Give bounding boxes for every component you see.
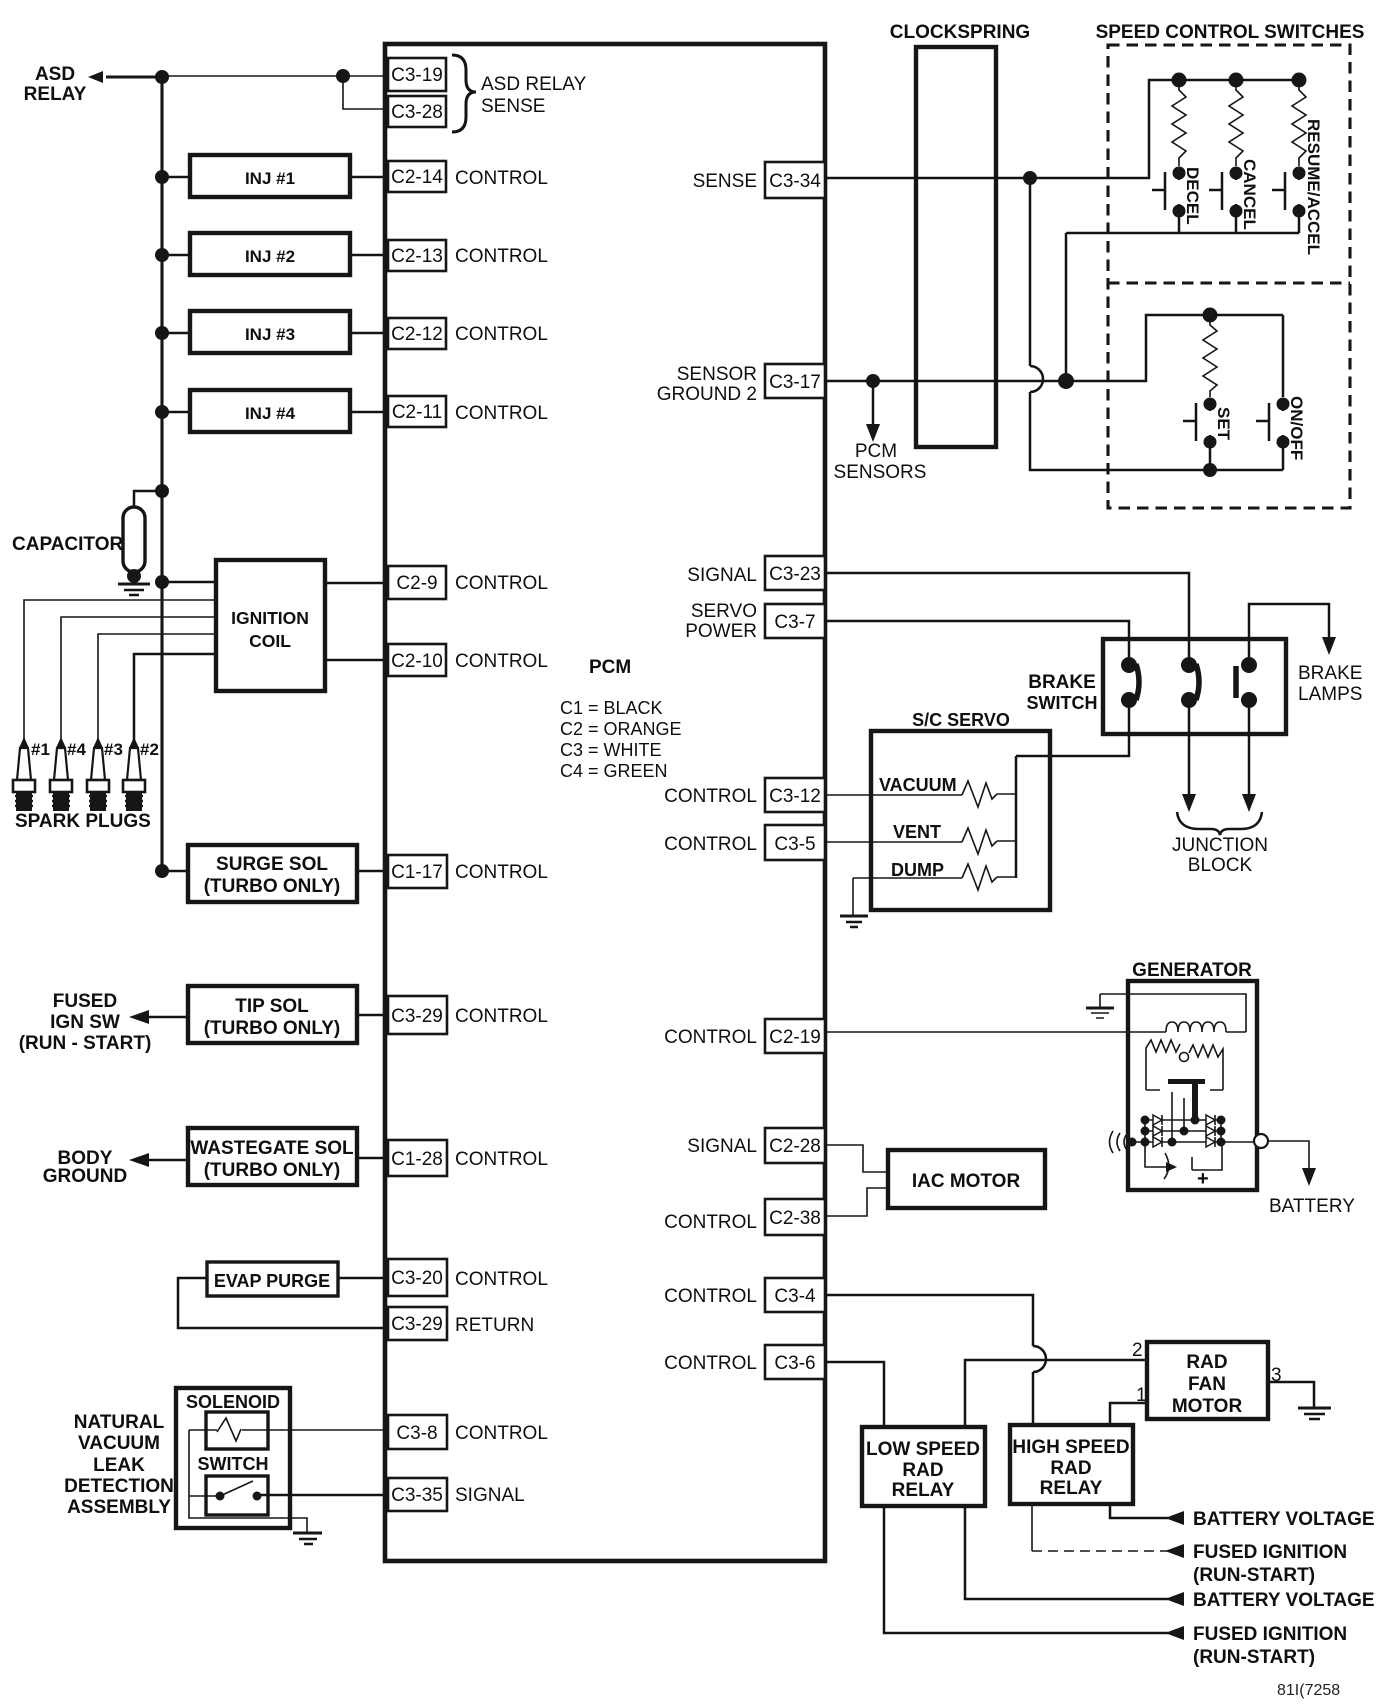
svg-text:C2-11: C2-11: [392, 402, 442, 423]
svg-text:CONTROL: CONTROL: [664, 1353, 757, 1374]
svg-text:C3-34: C3-34: [769, 171, 821, 192]
svg-text:(TURBO ONLY): (TURBO ONLY): [204, 1160, 341, 1181]
svg-text:RESUME/ACCEL: RESUME/ACCEL: [1304, 119, 1323, 255]
svg-text:S/C SERVO: S/C SERVO: [912, 710, 1010, 730]
svg-text:VACUUM: VACUUM: [78, 1433, 160, 1454]
svg-text:CONTROL: CONTROL: [455, 862, 548, 883]
svg-text:ASD: ASD: [35, 64, 75, 85]
svg-text:3: 3: [1271, 1365, 1282, 1386]
svg-text:CONTROL: CONTROL: [455, 1006, 548, 1027]
svg-text:#1: #1: [31, 740, 50, 759]
svg-text:GENERATOR: GENERATOR: [1132, 960, 1252, 981]
svg-text:C2-10: C2-10: [391, 651, 443, 672]
svg-text:SIGNAL: SIGNAL: [455, 1485, 525, 1506]
svg-text:C4 = GREEN: C4 = GREEN: [560, 761, 668, 781]
svg-text:CONTROL: CONTROL: [455, 573, 548, 594]
svg-text:BATTERY VOLTAGE: BATTERY VOLTAGE: [1193, 1590, 1375, 1611]
svg-text:SENSOR: SENSOR: [677, 364, 757, 385]
svg-text:BRAKE: BRAKE: [1028, 672, 1096, 693]
svg-text:C1-17: C1-17: [391, 862, 443, 883]
svg-text:ASD RELAY: ASD RELAY: [481, 74, 587, 95]
svg-text:C2 = ORANGE: C2 = ORANGE: [560, 719, 682, 739]
svg-text:C2-9: C2-9: [396, 573, 437, 594]
svg-text:CONTROL: CONTROL: [455, 168, 548, 189]
svg-text:LOW SPEED: LOW SPEED: [866, 1439, 980, 1460]
svg-text:CONTROL: CONTROL: [664, 834, 757, 855]
svg-text:CONTROL: CONTROL: [455, 1149, 548, 1170]
svg-text:C3-7: C3-7: [774, 612, 815, 633]
svg-text:#2: #2: [140, 740, 159, 759]
svg-text:CONTROL: CONTROL: [455, 651, 548, 672]
svg-text:(TURBO ONLY): (TURBO ONLY): [204, 876, 341, 897]
svg-text:VACUUM: VACUUM: [879, 775, 957, 795]
svg-text:PCM: PCM: [855, 441, 897, 462]
svg-text:DETECTION: DETECTION: [64, 1476, 174, 1497]
svg-text:INJ #3: INJ #3: [245, 325, 295, 344]
svg-text:C2-28: C2-28: [769, 1136, 821, 1157]
svg-text:FUSED IGNITION: FUSED IGNITION: [1193, 1624, 1347, 1645]
svg-text:INJ #1: INJ #1: [245, 169, 295, 188]
svg-text:IGNITION: IGNITION: [231, 608, 309, 628]
svg-text:CANCEL: CANCEL: [1240, 159, 1259, 230]
svg-text:C3-19: C3-19: [391, 65, 443, 86]
svg-text:(TURBO ONLY): (TURBO ONLY): [204, 1018, 341, 1039]
svg-text:(RUN-START): (RUN-START): [1193, 1647, 1315, 1668]
svg-text:C3-28: C3-28: [391, 102, 443, 123]
svg-text:SERVO: SERVO: [691, 601, 757, 622]
svg-text:CLOCKSPRING: CLOCKSPRING: [890, 22, 1030, 43]
svg-text:SENSE: SENSE: [481, 96, 545, 117]
svg-text:FUSED: FUSED: [53, 991, 117, 1012]
svg-text:IGN SW: IGN SW: [50, 1012, 120, 1033]
svg-text:C3-6: C3-6: [774, 1353, 815, 1374]
svg-text:LEAK: LEAK: [93, 1455, 145, 1476]
svg-text:CONTROL: CONTROL: [664, 1212, 757, 1233]
svg-text:SENSORS: SENSORS: [834, 462, 927, 483]
svg-text:C3-29: C3-29: [391, 1314, 443, 1335]
svg-text:RETURN: RETURN: [455, 1315, 534, 1336]
svg-text:CONTROL: CONTROL: [664, 1286, 757, 1307]
svg-text:C2-14: C2-14: [391, 167, 443, 188]
svg-text:SOLENOID: SOLENOID: [186, 1392, 280, 1412]
svg-text:RELAY: RELAY: [892, 1480, 955, 1501]
svg-text:LAMPS: LAMPS: [1298, 684, 1362, 705]
svg-text:+: +: [1197, 1168, 1209, 1190]
svg-text:VENT: VENT: [893, 822, 941, 842]
svg-text:BLOCK: BLOCK: [1188, 855, 1253, 876]
svg-text:NATURAL: NATURAL: [74, 1412, 165, 1433]
svg-text:PCM: PCM: [589, 657, 631, 678]
svg-text:ON/OFF: ON/OFF: [1287, 396, 1306, 460]
svg-text:C3-20: C3-20: [391, 1268, 443, 1289]
svg-text:ASSEMBLY: ASSEMBLY: [67, 1497, 171, 1518]
svg-text:RAD: RAD: [902, 1460, 943, 1481]
svg-text:CONTROL: CONTROL: [664, 786, 757, 807]
svg-text:RAD: RAD: [1186, 1352, 1227, 1373]
svg-text:C3-35: C3-35: [391, 1485, 443, 1506]
svg-text:C3-4: C3-4: [774, 1286, 816, 1307]
svg-text:SPEED CONTROL SWITCHES: SPEED CONTROL SWITCHES: [1096, 22, 1365, 43]
svg-text:CONTROL: CONTROL: [455, 246, 548, 267]
svg-text:C3 = WHITE: C3 = WHITE: [560, 740, 662, 760]
svg-text:POWER: POWER: [685, 621, 757, 642]
svg-text:DECEL: DECEL: [1183, 167, 1202, 225]
svg-text:C3-5: C3-5: [774, 834, 815, 855]
svg-text:EVAP PURGE: EVAP PURGE: [214, 1271, 330, 1291]
svg-text:MOTOR: MOTOR: [1172, 1396, 1243, 1417]
svg-text:GROUND 2: GROUND 2: [657, 384, 757, 405]
svg-text:C3-8: C3-8: [396, 1423, 437, 1444]
svg-text:TIP SOL: TIP SOL: [235, 996, 309, 1017]
svg-text:C3-23: C3-23: [769, 564, 821, 585]
svg-text:C3-17: C3-17: [769, 372, 821, 393]
svg-text:DUMP: DUMP: [891, 860, 944, 880]
svg-text:COIL: COIL: [249, 631, 291, 651]
svg-text:CONTROL: CONTROL: [455, 1269, 548, 1290]
svg-text:BATTERY VOLTAGE: BATTERY VOLTAGE: [1193, 1509, 1375, 1530]
svg-text:BATTERY: BATTERY: [1269, 1196, 1355, 1217]
svg-text:C2-19: C2-19: [769, 1027, 821, 1048]
svg-text:SWITCH: SWITCH: [1027, 693, 1098, 713]
svg-text:SET: SET: [1214, 407, 1233, 441]
svg-text:C1 = BLACK: C1 = BLACK: [560, 698, 663, 718]
svg-text:BRAKE: BRAKE: [1298, 663, 1362, 684]
svg-text:2: 2: [1132, 1340, 1143, 1361]
svg-text:SIGNAL: SIGNAL: [687, 565, 757, 586]
svg-text:SURGE SOL: SURGE SOL: [216, 854, 328, 875]
svg-text:WASTEGATE SOL: WASTEGATE SOL: [190, 1138, 354, 1159]
svg-text:RELAY: RELAY: [24, 84, 87, 105]
svg-text:CONTROL: CONTROL: [455, 403, 548, 424]
svg-text:HIGH SPEED: HIGH SPEED: [1012, 1437, 1129, 1458]
svg-text:CONTROL: CONTROL: [664, 1027, 757, 1048]
svg-text:IAC MOTOR: IAC MOTOR: [912, 1171, 1021, 1192]
svg-text:(RUN - START): (RUN - START): [19, 1033, 152, 1054]
svg-text:C2-12: C2-12: [391, 324, 443, 345]
svg-text:C2-13: C2-13: [391, 246, 443, 267]
svg-text:CAPACITOR: CAPACITOR: [12, 534, 123, 555]
svg-text:CONTROL: CONTROL: [455, 1423, 548, 1444]
svg-text:#3: #3: [104, 740, 123, 759]
svg-text:SWITCH: SWITCH: [198, 1454, 269, 1474]
svg-text:SENSE: SENSE: [693, 171, 757, 192]
svg-text:RELAY: RELAY: [1040, 1478, 1103, 1499]
svg-text:FUSED IGNITION: FUSED IGNITION: [1193, 1542, 1347, 1563]
svg-text:FAN: FAN: [1188, 1374, 1226, 1395]
svg-text:RAD: RAD: [1050, 1458, 1091, 1479]
svg-text:C3-29: C3-29: [391, 1006, 443, 1027]
svg-text:(RUN-START): (RUN-START): [1193, 1565, 1315, 1586]
svg-text:INJ #4: INJ #4: [245, 404, 296, 423]
svg-text:INJ #2: INJ #2: [245, 247, 295, 266]
svg-text:C2-38: C2-38: [769, 1208, 821, 1229]
svg-text:SIGNAL: SIGNAL: [687, 1136, 757, 1157]
svg-text:81I(7258: 81I(7258: [1277, 1682, 1340, 1699]
svg-text:GROUND: GROUND: [43, 1166, 127, 1187]
svg-text:#4: #4: [67, 740, 86, 759]
svg-text:JUNCTION: JUNCTION: [1172, 835, 1268, 856]
svg-text:C1-28: C1-28: [391, 1149, 443, 1170]
svg-text:CONTROL: CONTROL: [455, 324, 548, 345]
svg-text:SPARK PLUGS: SPARK PLUGS: [15, 811, 151, 832]
svg-text:C3-12: C3-12: [769, 786, 821, 807]
